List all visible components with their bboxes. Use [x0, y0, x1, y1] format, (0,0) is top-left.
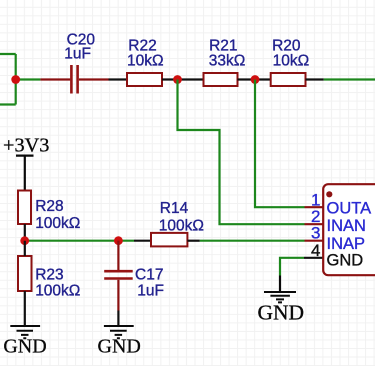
resistor R21 body: [204, 73, 238, 86]
capacitor C20 plates: [71, 65, 77, 94]
svg-text:100kΩ: 100kΩ: [159, 217, 204, 234]
svg-text:R23: R23: [35, 267, 63, 284]
svg-text:GND: GND: [3, 335, 46, 357]
svg-text:4: 4: [311, 241, 320, 260]
ground symbol GND1: [10, 326, 40, 338]
wire bias node to R14: [134, 240, 151, 242]
node junction C17: [114, 236, 123, 245]
svg-text:C17: C17: [135, 267, 163, 284]
pin 4 stub: [304, 257, 323, 259]
pin 2 stub: [305, 223, 323, 225]
ground symbol GND2: [104, 326, 134, 338]
svg-text:1uF: 1uF: [64, 46, 91, 63]
svg-text:R14: R14: [160, 200, 189, 217]
svg-text:+3V3: +3V3: [3, 135, 49, 157]
svg-text:1uF: 1uF: [137, 282, 164, 299]
svg-text:100kΩ: 100kΩ: [35, 215, 80, 232]
svg-text:GND: GND: [258, 300, 305, 324]
connector P? partial green outline top-left: [0, 54, 16, 105]
svg-text:GND: GND: [327, 252, 364, 270]
svg-text:GND: GND: [98, 335, 141, 357]
node junction R21/R20: [251, 75, 260, 84]
resistor R28 body: [18, 191, 31, 225]
wire R22 junction to pin 2 (INAN): [178, 80, 305, 225]
wire pin 4 to ground: [280, 258, 304, 276]
ground symbol GND3: [264, 292, 296, 302]
resistor R14 body: [151, 233, 187, 247]
capacitor C20 left pin: [40, 78, 70, 80]
svg-text:33kΩ: 33kΩ: [209, 52, 246, 69]
pin 3 stub: [305, 240, 323, 242]
wire R21 junction to pin 1 (OUTA): [255, 80, 305, 208]
wire from connector to C20: [16, 78, 41, 80]
wire C20 to R22: [109, 78, 128, 80]
wire bias node horizontal: [25, 240, 134, 242]
svg-text:INAP: INAP: [327, 235, 366, 253]
op-amp pin 1 marker dot: [326, 191, 332, 197]
svg-text:INAN: INAN: [327, 217, 366, 235]
capacitor C20 right pin: [79, 78, 109, 80]
wire R21 to R20: [238, 78, 271, 80]
svg-text:OUTA: OUTA: [327, 200, 372, 218]
node junction R22/R21: [173, 75, 182, 84]
resistor R23 body: [18, 256, 32, 291]
op-amp U? body: [323, 184, 375, 275]
wire C17 to ground: [117, 311, 119, 327]
node junction at connector: [11, 75, 20, 84]
resistor R20 body: [271, 73, 306, 86]
wire R14 right stub: [187, 240, 199, 242]
svg-text:10kΩ: 10kΩ: [127, 52, 164, 69]
svg-text:100kΩ: 100kΩ: [35, 283, 80, 300]
svg-text:10kΩ: 10kΩ: [273, 52, 310, 69]
wire R22 to R21: [162, 78, 204, 80]
wire R28 to junction: [24, 224, 26, 241]
wire R14 to pin 3 (INAP): [200, 240, 305, 242]
capacitor C17 plates: [104, 271, 133, 278]
resistor R22 body: [127, 73, 162, 86]
wire R20 right stub: [306, 78, 324, 80]
capacitor C17 top pin: [117, 241, 119, 270]
wire R20 to right edge: [324, 78, 375, 80]
pin 1 stub: [305, 206, 323, 208]
node junction R28/R23: [20, 236, 29, 245]
wire R23 to ground: [24, 241, 26, 326]
capacitor C17 bottom pin: [117, 280, 119, 311]
svg-text:R28: R28: [35, 198, 63, 215]
power +3V3 symbol: [16, 156, 34, 191]
ground GND3 stem: [279, 276, 281, 293]
